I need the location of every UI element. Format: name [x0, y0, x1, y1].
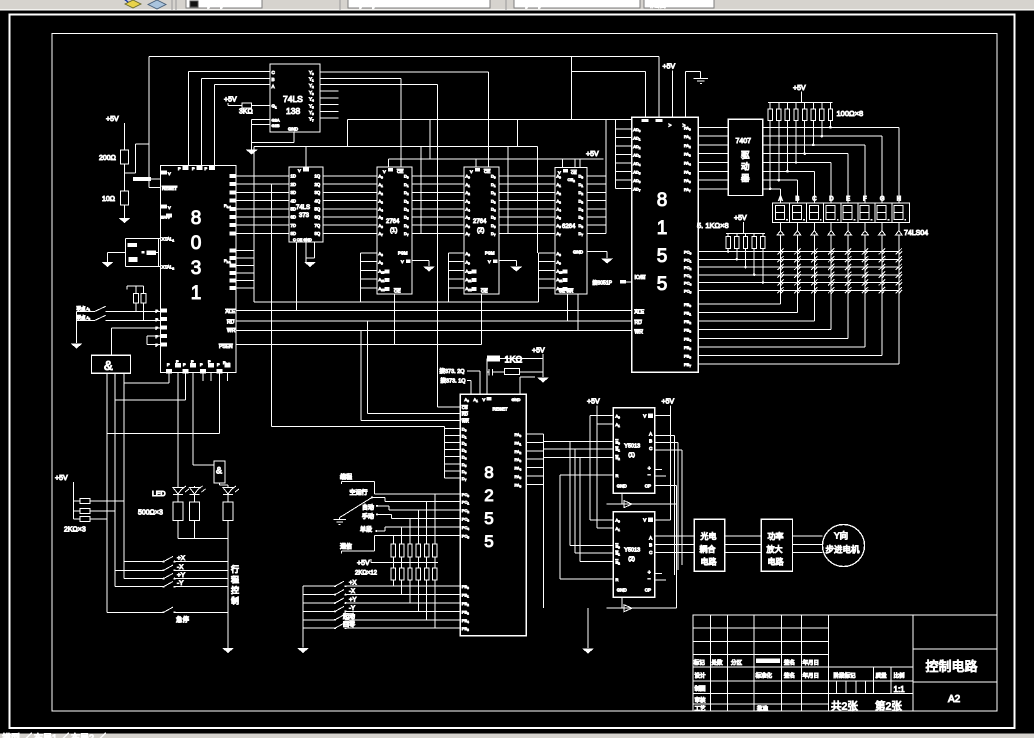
svg-text:A: A — [649, 431, 652, 436]
svg-text:4D: 4D — [291, 198, 296, 203]
svg-text:V: V — [298, 168, 301, 173]
wire PA stubs 8255 — [526, 434, 543, 608]
label duanduan — [360, 526, 372, 534]
+5V 8155 — [663, 64, 676, 118]
switch qidong — [303, 612, 460, 621]
svg-text:制: 制 — [231, 596, 239, 606]
toolbar combo linetype — [348, 0, 490, 9]
wire G1 top input — [111, 328, 160, 356]
svg-text:G2B: G2B — [272, 123, 280, 128]
wire G2 out — [220, 483, 229, 486]
svg-text:签名: 签名 — [784, 672, 795, 680]
svg-text:P: P — [167, 362, 170, 367]
ground 8155 top — [686, 72, 708, 118]
svg-text:V: V — [488, 259, 491, 264]
IC 8155 — [632, 117, 699, 372]
svg-text:审核: 审核 — [695, 696, 707, 704]
svg-text:(2): (2) — [477, 228, 484, 234]
svg-text:+5V: +5V — [532, 348, 545, 355]
svg-text:P: P — [176, 359, 179, 364]
label shoudong — [362, 513, 374, 521]
svg-text:分区: 分区 — [731, 658, 743, 666]
switch +X — [124, 555, 228, 563]
svg-text:回零: 回零 — [343, 622, 355, 629]
svg-text:步进电机: 步进电机 — [826, 545, 861, 555]
wire 8255 reset RC — [487, 348, 549, 395]
wire WR — [236, 329, 632, 331]
svg-text:138: 138 — [286, 106, 300, 116]
svg-text:A: A — [649, 535, 652, 540]
svg-text:控: 控 — [231, 585, 239, 595]
svg-text:OE: OE — [394, 288, 401, 293]
IC 6264 — [555, 168, 587, 295]
svg-text:F: F — [863, 197, 867, 203]
svg-text:耦合: 耦合 — [700, 544, 716, 554]
svg-text:&: & — [104, 358, 113, 373]
svg-text:+5V: +5V — [793, 85, 806, 92]
svg-text:P: P — [191, 359, 194, 364]
svg-text:D: D — [829, 197, 834, 203]
display 7seg array — [772, 197, 909, 223]
svg-text:接373. 2Q: 接373. 2Q — [440, 367, 466, 375]
svg-text:OE WR: OE WR — [559, 289, 573, 294]
svg-text:6264: 6264 — [562, 224, 576, 230]
reset bar — [133, 177, 161, 187]
IC 74LS373 — [289, 167, 323, 242]
svg-text:+5V: +5V — [663, 64, 676, 71]
svg-text:+5V: +5V — [587, 399, 600, 406]
svg-text:ByLayer: ByLayer — [354, 0, 384, 9]
crystal Y1 — [142, 250, 157, 255]
wire Y3-Y7 stubs — [320, 91, 338, 118]
wire 373 C — [296, 242, 298, 310]
ground PB bus — [297, 648, 309, 653]
svg-text:6Q: 6Q — [315, 215, 321, 220]
svg-text:GND: GND — [617, 483, 628, 488]
svg-text:74LS: 74LS — [296, 205, 310, 211]
svg-text:P: P — [178, 166, 181, 171]
svg-text:设计: 设计 — [695, 672, 707, 680]
wire P0 bus — [236, 176, 289, 233]
svg-text:第2张: 第2张 — [875, 700, 902, 713]
+5V label eprom — [586, 151, 599, 158]
wire 138 input B — [201, 78, 270, 165]
svg-text:2: 2 — [484, 486, 493, 505]
svg-text:驱: 驱 — [741, 150, 750, 160]
wire driver left feeds — [543, 442, 613, 580]
svg-text:H: H — [897, 197, 901, 203]
svg-text:通信: 通信 — [340, 542, 352, 550]
svg-text:电路: 电路 — [768, 557, 784, 567]
wire 8255 A1 A0 — [467, 371, 480, 394]
svg-text:PSEN: PSEN — [219, 344, 233, 350]
svg-text:2KΩ×12: 2KΩ×12 — [355, 571, 378, 577]
svg-text:比例: 比例 — [894, 672, 906, 680]
label jie373-2Q — [440, 367, 466, 375]
wire 138 input A — [215, 85, 271, 166]
toolbar combo lineweight — [514, 0, 640, 9]
wire PSEN — [236, 343, 481, 345]
wire 2764-1 Vpp — [412, 261, 429, 266]
svg-text:V: V — [401, 259, 404, 264]
svg-text:共2张: 共2张 — [831, 701, 858, 713]
svg-text:CP: CP — [645, 483, 651, 488]
svg-text:质量: 质量 — [876, 672, 888, 680]
svg-text:10Ω: 10Ω — [102, 196, 115, 203]
wire bus v517 — [517, 120, 537, 253]
svg-text:2764: 2764 — [473, 219, 487, 225]
svg-text:年月日: 年月日 — [803, 658, 820, 666]
svg-text:Y5013: Y5013 — [624, 443, 640, 449]
svg-text:V: V — [168, 171, 171, 176]
ground 138 — [246, 150, 258, 155]
svg-text:200Ω: 200Ω — [99, 155, 116, 162]
wire +5V rail eprom — [389, 120, 604, 168]
switch +Y — [124, 572, 228, 580]
svg-text:0: 0 — [191, 233, 202, 254]
switch -Y — [115, 580, 228, 588]
svg-text:3D: 3D — [291, 190, 296, 195]
svg-text:R: R — [616, 473, 619, 478]
resistor pullup pair — [127, 286, 146, 320]
ground reset — [119, 218, 131, 223]
LED D3 — [223, 486, 239, 502]
svg-text:EA/V: EA/V — [161, 215, 170, 220]
IC 2764-2 — [464, 167, 499, 294]
svg-text:7D: 7D — [291, 223, 296, 228]
svg-text:2KΩ×3: 2KΩ×3 — [64, 527, 86, 534]
svg-text:急停: 急停 — [176, 614, 190, 623]
svg-text:GND: GND — [288, 127, 299, 132]
svg-text:P: P — [217, 362, 220, 367]
svg-text:P: P — [200, 362, 203, 367]
svg-text:A: A — [272, 84, 275, 89]
svg-text:-X: -X — [349, 589, 355, 595]
svg-text:V: V — [470, 169, 473, 174]
toolbar icon blue diamond — [148, 0, 166, 9]
diode array 74LS04 — [777, 223, 902, 236]
wire 8255 gnd top — [520, 377, 535, 394]
svg-text:行: 行 — [231, 564, 239, 574]
svg-text:8D: 8D — [291, 231, 296, 236]
ground mode switch — [334, 520, 347, 525]
svg-text:2Q: 2Q — [315, 182, 321, 187]
svg-text:电路: 电路 — [701, 557, 717, 567]
svg-text:+5V: +5V — [357, 560, 370, 567]
svg-text:-Y: -Y — [349, 606, 355, 612]
svg-text:1: 1 — [191, 283, 202, 304]
svg-text:GND: GND — [573, 250, 584, 255]
wire 6264 OE WR — [568, 294, 578, 330]
capacitor C2 — [128, 257, 137, 262]
wire opto to amp — [725, 536, 761, 553]
svg-text:5: 5 — [484, 509, 493, 528]
svg-text:+5V: +5V — [662, 399, 675, 406]
svg-text:RESET: RESET — [162, 186, 177, 191]
svg-text:B: B — [272, 77, 275, 82]
+5V 2K — [55, 475, 73, 519]
resistor 500x3 label — [138, 510, 163, 517]
wire 373 OE GND — [306, 242, 314, 262]
resistor pack 2Kx12 — [355, 494, 438, 628]
svg-text:阶段标记: 阶段标记 — [834, 672, 857, 680]
wire reset node — [125, 144, 150, 173]
wire 8255 WR tap — [361, 330, 460, 420]
wire A8-A12 bus — [236, 251, 555, 303]
svg-text:自动: 自动 — [362, 503, 374, 511]
svg-text:签名: 签名 — [784, 658, 795, 666]
svg-text:74LS04: 74LS04 — [904, 230, 928, 237]
svg-text:+: + — [648, 466, 651, 472]
svg-text:P: P — [208, 359, 211, 364]
svg-text:WR: WR — [635, 329, 644, 335]
wire driver2 outputs — [655, 536, 695, 553]
svg-text:CP: CP — [645, 587, 651, 592]
wire RD — [236, 320, 632, 322]
capacitor C1 — [128, 243, 137, 247]
switch PB +X — [303, 581, 460, 588]
svg-text:5: 5 — [657, 274, 668, 295]
svg-text:起动: 起动 — [343, 612, 355, 620]
wire P3 stubs — [147, 336, 160, 345]
svg-text:Y向: Y向 — [834, 531, 848, 541]
svg-text:放大: 放大 — [767, 544, 783, 554]
svg-text:接8051P: 接8051P — [593, 280, 613, 287]
wire 500 bottoms — [178, 521, 228, 649]
resistor R5c — [223, 502, 233, 521]
svg-text:控制电路: 控制电路 — [926, 659, 978, 674]
svg-text:CS: CS — [462, 405, 468, 410]
label K2 — [77, 314, 91, 321]
svg-text:P: P — [192, 166, 195, 171]
wire diode line 1 — [607, 493, 677, 507]
statusbar strip — [0, 732, 1034, 738]
svg-text:RD: RD — [462, 412, 468, 417]
switch PB +Y — [303, 598, 460, 605]
svg-text:WR: WR — [462, 419, 469, 424]
resistor R5b — [190, 502, 200, 521]
LED D2 — [190, 486, 206, 502]
title block grid — [693, 615, 997, 711]
svg-text:6D: 6D — [291, 215, 296, 220]
AND gate G1 — [92, 355, 131, 373]
svg-text:P: P — [156, 317, 159, 322]
IC 8031 — [156, 166, 237, 374]
wire Y5013-1 pm — [655, 470, 677, 609]
label jie373-1Q — [441, 377, 467, 385]
svg-text:7Q: 7Q — [315, 223, 321, 228]
+5V driver right — [655, 399, 675, 520]
svg-text:+Y: +Y — [177, 572, 186, 579]
svg-text:+5V: +5V — [586, 151, 599, 158]
svg-text:接373. 1Q: 接373. 1Q — [441, 377, 467, 385]
svg-text:5. 1KΩ×8: 5. 1KΩ×8 — [697, 221, 729, 230]
svg-text:功率: 功率 — [768, 531, 784, 541]
ground xtal — [102, 262, 114, 267]
svg-text:+5V: +5V — [734, 215, 747, 222]
svg-text:C OE GND: C OE GND — [293, 238, 312, 242]
wire PB staircase — [698, 235, 899, 364]
title col labels — [695, 685, 769, 713]
svg-text:CE: CE — [571, 170, 577, 175]
IC 8255 — [460, 394, 526, 636]
wire 8255 RD tap — [367, 321, 460, 414]
wire Y0 — [320, 72, 488, 167]
svg-text:批准: 批准 — [757, 704, 769, 712]
resistor pack 5.1Kx8 — [697, 215, 765, 284]
svg-text:标记: 标记 — [694, 658, 706, 666]
svg-text:7407: 7407 — [736, 138, 752, 145]
wire top bus 2 — [572, 71, 646, 117]
wire Y1 — [320, 78, 401, 167]
svg-text:GND: GND — [512, 397, 521, 402]
ground 2764-2 — [510, 267, 522, 272]
label zidong — [362, 503, 374, 511]
svg-text:GND: GND — [617, 587, 628, 592]
switch -X — [115, 564, 228, 572]
svg-text:373: 373 — [299, 213, 310, 219]
wire 2764-2 to 6264 rows — [508, 176, 555, 233]
label K1 — [77, 305, 91, 312]
svg-text:−: − — [648, 472, 651, 478]
svg-text:-X: -X — [177, 564, 184, 571]
svg-text:1D: 1D — [291, 174, 296, 179]
svg-text:+Y: +Y — [349, 598, 357, 604]
svg-text:工艺: 工艺 — [695, 705, 707, 712]
toolbar background — [0, 0, 1034, 11]
svg-text:R: R — [616, 577, 619, 582]
svg-text:2764: 2764 — [386, 219, 400, 225]
label tongxin — [340, 542, 352, 550]
svg-text:3: 3 — [191, 258, 202, 279]
ground LED bus — [222, 648, 234, 653]
wire 2764-1 to 2764-2 rows — [421, 176, 464, 233]
svg-text:年月日: 年月日 — [803, 672, 820, 680]
svg-text:1KΩ: 1KΩ — [505, 355, 523, 365]
wire diode line 2 — [607, 597, 677, 611]
ground 373 — [304, 262, 316, 267]
wire PC lines 8255 — [342, 494, 461, 553]
svg-text:模型 ╱ 布局1 ╱ 布局2 ╱: 模型 ╱ 布局1 ╱ 布局2 ╱ — [2, 732, 106, 738]
wire switch common — [76, 311, 78, 343]
wire 7407 outputs — [763, 121, 899, 203]
svg-text:V: V — [483, 397, 486, 402]
title sheet count — [831, 700, 902, 713]
IC Y5013-1 — [613, 408, 655, 493]
+5V reset — [106, 116, 125, 150]
svg-text:PGM: PGM — [485, 251, 495, 256]
label kongyunxing — [350, 489, 368, 497]
svg-text:P: P — [205, 166, 208, 171]
wire PB gnd bus — [302, 586, 304, 647]
wire 373 Q bus — [323, 176, 377, 233]
resistor pack 100x8 — [768, 85, 863, 121]
+5V driver left — [587, 399, 613, 529]
svg-text:RESET: RESET — [493, 407, 508, 412]
title row labels — [694, 658, 819, 666]
wire G1 outputs — [107, 373, 124, 612]
svg-text:>: > — [669, 123, 672, 129]
svg-text:-Y: -Y — [177, 580, 184, 587]
svg-text:处数: 处数 — [712, 658, 724, 666]
svg-text:A2: A2 — [948, 694, 961, 705]
wire PC rows — [698, 252, 899, 291]
svg-text:8: 8 — [191, 208, 202, 229]
svg-text:1:1: 1:1 — [894, 685, 906, 694]
wire xtal — [108, 239, 161, 267]
svg-text:+X: +X — [177, 555, 186, 562]
ground switches — [71, 344, 83, 349]
svg-text:1: 1 — [657, 218, 668, 239]
resistor 3K — [228, 103, 270, 115]
wire 2764-2 OE — [480, 294, 482, 344]
svg-text:8Q: 8Q — [315, 231, 321, 236]
IC 74LS138 — [270, 64, 320, 132]
wire 2764-2 Vpp — [499, 261, 516, 266]
wire 373 vcc — [305, 146, 307, 167]
svg-text:ByLayer: ByLayer — [202, 0, 232, 9]
wire G2 input — [193, 464, 214, 466]
resistor 10ohm — [102, 191, 129, 218]
IC Y5013-2 — [613, 512, 655, 597]
+5V G1 label — [224, 97, 237, 106]
toolbar combo color — [186, 0, 262, 9]
toolbar separators — [172, 0, 506, 10]
svg-text:IO/M: IO/M — [635, 275, 646, 281]
svg-text:ByLayer: ByLayer — [520, 0, 550, 9]
wire bus h146 — [254, 146, 537, 426]
wire Y5013-2 pm — [655, 574, 666, 580]
box opto — [694, 519, 725, 571]
wire driver gnd — [587, 608, 589, 648]
wire Y5013-1 outputs — [655, 435, 682, 575]
box power amp — [761, 519, 792, 571]
svg-text:2D: 2D — [291, 182, 296, 187]
wire bianchen — [342, 482, 375, 494]
svg-text:程: 程 — [231, 576, 239, 585]
wire 2764-1 D bus — [412, 146, 421, 233]
wire 138 gnd — [252, 133, 294, 143]
svg-text:3KΩ: 3KΩ — [239, 109, 253, 116]
svg-text:74LS: 74LS — [283, 94, 303, 104]
svg-text:+5V: +5V — [224, 97, 237, 104]
svg-text:(2): (2) — [628, 556, 635, 562]
svg-text:ALE: ALE — [635, 310, 645, 316]
svg-text:>: > — [683, 123, 686, 129]
svg-text:PGM: PGM — [398, 251, 408, 256]
svg-text:CE: CE — [484, 169, 490, 174]
LED D1 — [173, 486, 189, 502]
svg-text:5D: 5D — [291, 207, 296, 212]
switch K1 — [77, 306, 161, 311]
svg-text:WR: WR — [227, 328, 236, 334]
svg-text:+5V: +5V — [106, 116, 119, 123]
svg-text:LED: LED — [152, 491, 166, 498]
svg-text:V: V — [383, 169, 386, 174]
svg-text:1Q: 1Q — [315, 174, 321, 179]
svg-text:V: V — [643, 413, 646, 418]
switch PB -X — [303, 589, 460, 596]
svg-text:(1): (1) — [628, 452, 635, 458]
wire amp to motor — [793, 536, 823, 553]
svg-text:G: G — [880, 197, 885, 203]
label 74LS04 — [904, 230, 928, 237]
resistor 200ohm — [99, 150, 129, 191]
resistor 2Kx3 — [64, 499, 124, 534]
wire PA to 7407 — [698, 127, 728, 189]
svg-text:5: 5 — [484, 532, 493, 551]
X crossing marks — [777, 248, 902, 293]
